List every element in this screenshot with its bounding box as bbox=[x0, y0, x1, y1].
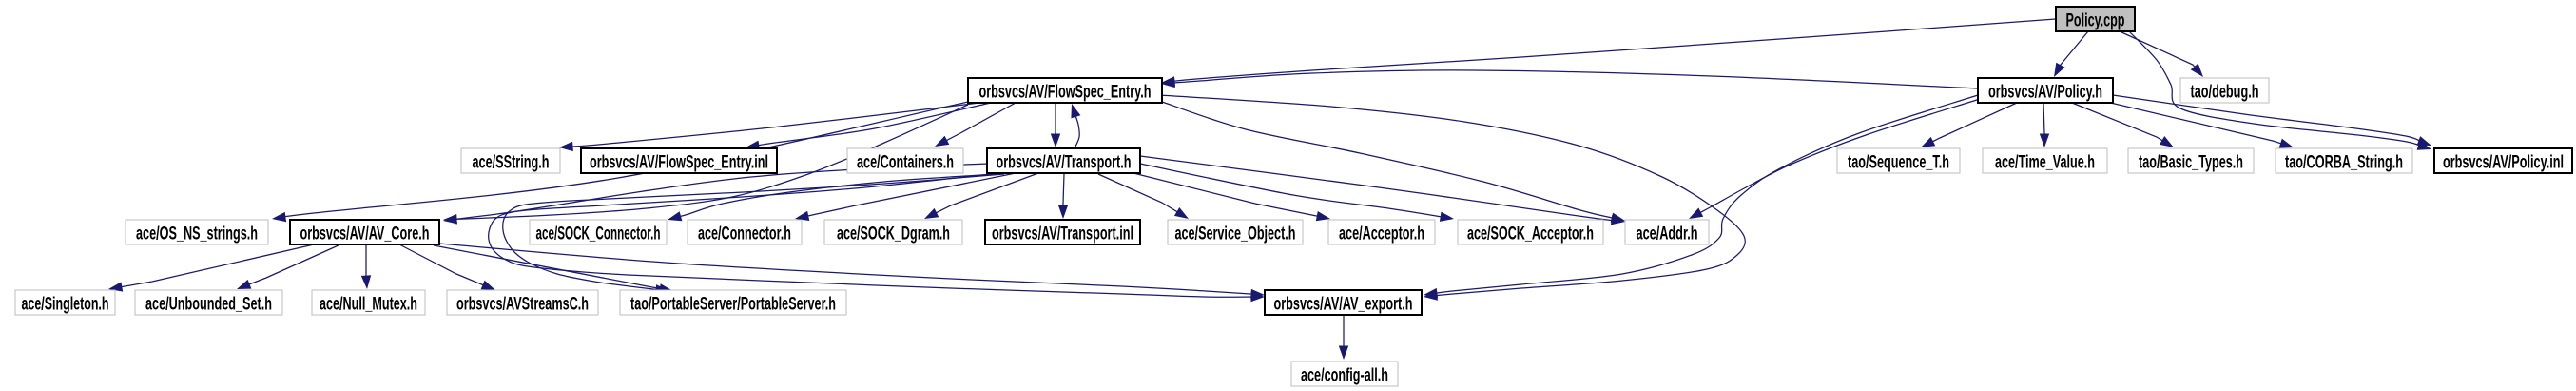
svg-text:ace/Connector.h: ace/Connector.h bbox=[698, 225, 791, 244]
edge Policy.cpp->Policy.inl bbox=[2129, 31, 2431, 150]
node ace/Unbounded_Set.h bbox=[135, 290, 282, 315]
edge AV_Core.h->Unbounded_Set.h bbox=[237, 244, 340, 289]
svg-text:ace/Acceptor.h: ace/Acceptor.h bbox=[1339, 225, 1424, 244]
edge Transport.h->Service_Object.h bbox=[1098, 174, 1189, 219]
edge Transport.h->FlowSpec_Entry.h bbox=[1071, 104, 1080, 148]
svg-text:orbsvcs/AV/Policy.inl: orbsvcs/AV/Policy.inl bbox=[2443, 153, 2564, 173]
svg-text:orbsvcs/AV/Policy.h: orbsvcs/AV/Policy.h bbox=[1988, 83, 2102, 103]
node orbsvcs/AV/AV_Core.h bbox=[290, 220, 439, 244]
edge Transport.h->SOCK_Acceptor.h bbox=[1140, 164, 1454, 222]
svg-text:orbsvcs/AV/FlowSpec_Entry.inl: orbsvcs/AV/FlowSpec_Entry.inl bbox=[590, 153, 768, 173]
svg-text:Policy.cpp: Policy.cpp bbox=[2066, 11, 2125, 31]
edge Policy.h->AV_export.h bbox=[1424, 95, 1978, 298]
svg-text:tao/Sequence_T.h: tao/Sequence_T.h bbox=[1848, 153, 1949, 173]
svg-text:ace/Containers.h: ace/Containers.h bbox=[857, 153, 954, 173]
edge Transport.h->SOCK_Connector.h bbox=[668, 174, 997, 221]
node ace/Containers.h bbox=[847, 148, 963, 173]
edge Policy.h->CORBA_String.h bbox=[2102, 101, 2294, 148]
edge Transport.h->Acceptor.h bbox=[1133, 173, 1330, 221]
svg-text:orbsvcs/AV/AV_export.h: orbsvcs/AV/AV_export.h bbox=[1274, 295, 1413, 315]
edge Policy.h->Time_Value.h bbox=[2040, 103, 2049, 147]
node tao/PortableServer/PortableServer.h bbox=[620, 290, 846, 315]
svg-text:ace/Unbounded_Set.h: ace/Unbounded_Set.h bbox=[145, 295, 272, 315]
node ace/OS_NS_strings.h bbox=[126, 220, 268, 244]
node ace/config-all.h bbox=[1291, 362, 1398, 386]
edge FlowSpec_Entry.h->Transport.h bbox=[1051, 103, 1060, 147]
edge Transport.h->Connector.h bbox=[795, 173, 1016, 221]
svg-text:ace/config-all.h: ace/config-all.h bbox=[1301, 366, 1388, 386]
edge Transport.h->AV_export.h bbox=[489, 174, 1265, 302]
edge FlowSpec_Entry.h->OS_NS_strings.h bbox=[272, 102, 968, 222]
svg-text:orbsvcs/AV/Transport.inl: orbsvcs/AV/Transport.inl bbox=[992, 225, 1133, 244]
edge Transport.h->PortableServer.h bbox=[503, 174, 1004, 294]
edge Policy.h->Basic_Types.h bbox=[2072, 103, 2174, 147]
svg-text:ace/SOCK_Acceptor.h: ace/SOCK_Acceptor.h bbox=[1467, 225, 1594, 244]
edge AV_Core.h->Null_Mutex.h bbox=[361, 244, 371, 289]
node ace/Singleton.h bbox=[15, 290, 115, 315]
svg-text:orbsvcs/AV/Transport.h: orbsvcs/AV/Transport.h bbox=[997, 153, 1132, 173]
edge FlowSpec_Entry.h->FlowSpec_Entry.inl bbox=[746, 103, 991, 150]
svg-text:orbsvcs/AV/FlowSpec_Entry.h: orbsvcs/AV/FlowSpec_Entry.h bbox=[979, 83, 1152, 103]
svg-text:ace/SOCK_Connector.h: ace/SOCK_Connector.h bbox=[536, 225, 661, 244]
node orbsvcs/AV/AV_export.h bbox=[1265, 290, 1422, 315]
svg-text:ace/Time_Value.h: ace/Time_Value.h bbox=[1995, 153, 2095, 173]
edge Transport.h->SOCK_Dgram.h bbox=[924, 173, 1038, 219]
node tao/Basic_Types.h bbox=[2128, 148, 2254, 173]
node orbsvcs/AV/Policy.inl bbox=[2434, 148, 2572, 173]
svg-text:ace/Addr.h: ace/Addr.h bbox=[1637, 225, 1698, 244]
edge Policy.h->FlowSpec_Entry.h bbox=[1161, 70, 1978, 88]
svg-text:orbsvcs/AVStreamsC.h: orbsvcs/AVStreamsC.h bbox=[456, 295, 589, 315]
svg-text:tao/CORBA_String.h: tao/CORBA_String.h bbox=[2285, 153, 2403, 173]
node orbsvcs/AV/FlowSpec_Entry.h bbox=[968, 78, 1162, 103]
svg-text:ace/SString.h: ace/SString.h bbox=[473, 153, 550, 173]
edge Transport.h->Addr.h bbox=[1140, 156, 1625, 225]
edge FlowSpec_Entry.h->AV_export.h bbox=[1159, 95, 1745, 301]
svg-text:ace/Service_Object.h: ace/Service_Object.h bbox=[1175, 225, 1296, 244]
node ace/SString.h bbox=[461, 148, 560, 173]
node ace/Acceptor.h bbox=[1328, 220, 1435, 244]
svg-text:orbsvcs/AV/AV_Core.h: orbsvcs/AV/AV_Core.h bbox=[300, 225, 430, 244]
svg-text:ace/SOCK_Dgram.h: ace/SOCK_Dgram.h bbox=[837, 225, 950, 244]
svg-text:ace/OS_NS_strings.h: ace/OS_NS_strings.h bbox=[136, 225, 258, 244]
edge FlowSpec_Entry.h->Containers.h bbox=[935, 103, 1016, 147]
node orbsvcs/AV/Policy.h bbox=[1978, 78, 2113, 103]
edge Policy.cpp->debug.h bbox=[2120, 31, 2203, 77]
node ace/Connector.h bbox=[688, 220, 802, 244]
edge Policy.h->Sequence_T.h bbox=[1921, 103, 2017, 147]
edge Policy.h->Policy.inl bbox=[2113, 95, 2431, 146]
edge AV_export.h->config-all.h bbox=[1339, 315, 1348, 360]
node Policy.cpp bbox=[2056, 7, 2135, 31]
edge AV_Core.h->AV_export.h bbox=[439, 244, 1265, 299]
node ace/SOCK_Connector.h bbox=[530, 220, 667, 244]
svg-text:tao/PortableServer/PortableSer: tao/PortableServer/PortableServer.h bbox=[630, 295, 836, 315]
edge AV_Core.h->Singleton.h bbox=[108, 244, 314, 292]
edge AV_Core.h->PortableServer.h bbox=[434, 245, 673, 294]
edge AV_Core.h->AVStreamsC.h bbox=[399, 244, 495, 290]
edge Transport.h->Transport.inl bbox=[1058, 174, 1068, 219]
edge Policy.h->Addr.h bbox=[1689, 99, 1980, 219]
node ace/Null_Mutex.h bbox=[312, 290, 425, 315]
node ace/SOCK_Acceptor.h bbox=[1458, 220, 1603, 244]
node orbsvcs/AV/Transport.inl bbox=[985, 220, 1140, 244]
node ace/Addr.h bbox=[1625, 220, 1709, 244]
edge Policy.cpp->FlowSpec_Entry.h bbox=[1161, 19, 2056, 87]
node ace/Service_Object.h bbox=[1168, 220, 1303, 244]
node tao/debug.h bbox=[2180, 78, 2269, 103]
node tao/CORBA_String.h bbox=[2276, 148, 2412, 173]
edge Transport.h->AV_Core.h bbox=[443, 164, 987, 224]
node tao/Sequence_T.h bbox=[1837, 148, 1960, 173]
edge FlowSpec_Entry.h->SString.h bbox=[559, 103, 979, 151]
svg-text:ace/Null_Mutex.h: ace/Null_Mutex.h bbox=[320, 295, 417, 315]
node orbsvcs/AV/FlowSpec_Entry.inl bbox=[581, 148, 777, 173]
edge FlowSpec_Entry.h->AV_Core.h bbox=[443, 105, 968, 225]
node ace/SOCK_Dgram.h bbox=[824, 220, 962, 244]
node orbsvcs/AVStreamsC.h bbox=[447, 290, 598, 315]
node ace/Time_Value.h bbox=[1983, 148, 2107, 173]
svg-text:tao/Basic_Types.h: tao/Basic_Types.h bbox=[2139, 153, 2243, 173]
node orbsvcs/AV/Transport.h bbox=[987, 148, 1140, 173]
edge Policy.cpp->Policy.h bbox=[2054, 31, 2088, 77]
svg-text:tao/debug.h: tao/debug.h bbox=[2191, 83, 2259, 103]
edge FlowSpec_Entry.h->Addr.h bbox=[1162, 102, 1625, 223]
svg-text:ace/Singleton.h: ace/Singleton.h bbox=[22, 295, 109, 315]
